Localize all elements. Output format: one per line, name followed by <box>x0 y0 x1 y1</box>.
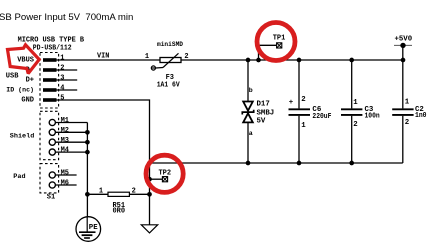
svg-text:Shield: Shield <box>10 132 34 140</box>
svg-text:D+: D+ <box>26 77 34 85</box>
svg-text:M6: M6 <box>61 180 69 188</box>
svg-text:+: + <box>289 99 294 107</box>
svg-text:1: 1 <box>353 99 358 107</box>
svg-text:b: b <box>249 87 253 94</box>
svg-text:Pad: Pad <box>13 173 25 181</box>
svg-text:220uF: 220uF <box>312 113 331 121</box>
svg-text:a: a <box>249 130 253 137</box>
svg-text:MICRO USB TYPE B: MICRO USB TYPE B <box>18 36 85 44</box>
svg-text:1: 1 <box>60 55 64 63</box>
svg-text:1: 1 <box>99 188 103 196</box>
svg-text:GND: GND <box>21 97 34 105</box>
svg-text:SB Power Input 5V 700mA min: SB Power Input 5V 700mA min <box>0 12 133 23</box>
svg-text:USB: USB <box>6 73 19 81</box>
svg-text:M5: M5 <box>61 170 69 178</box>
svg-text:2: 2 <box>132 188 136 196</box>
svg-text:2: 2 <box>60 65 64 73</box>
svg-text:2: 2 <box>301 96 305 104</box>
svg-text:1n0: 1n0 <box>415 112 427 120</box>
svg-text:5: 5 <box>60 95 64 103</box>
svg-text:2: 2 <box>405 119 409 127</box>
svg-text:PD-USB/112: PD-USB/112 <box>33 45 72 53</box>
svg-text:M1: M1 <box>61 117 69 125</box>
svg-text:1: 1 <box>145 53 149 61</box>
svg-text:1A1 6V: 1A1 6V <box>157 82 181 90</box>
svg-text:D17: D17 <box>257 100 270 108</box>
svg-text:VIN: VIN <box>97 52 109 60</box>
svg-text:M2: M2 <box>61 127 69 135</box>
svg-text:1: 1 <box>405 98 410 106</box>
svg-text:miniSMD: miniSMD <box>157 41 183 49</box>
svg-text:M3: M3 <box>61 137 69 145</box>
svg-text:PE: PE <box>89 224 98 232</box>
svg-text:S1: S1 <box>47 194 55 202</box>
svg-text:TP1: TP1 <box>273 34 286 42</box>
svg-text:0R0: 0R0 <box>112 208 125 216</box>
svg-text:ID (nc): ID (nc) <box>6 87 34 94</box>
svg-text:+5V0: +5V0 <box>395 35 413 43</box>
svg-text:1: 1 <box>301 122 306 130</box>
svg-text:5V: 5V <box>257 118 266 126</box>
svg-text:3: 3 <box>60 75 64 83</box>
svg-text:M4: M4 <box>61 147 69 155</box>
svg-text:TP2: TP2 <box>158 169 171 177</box>
svg-text:SMBJ: SMBJ <box>257 110 275 118</box>
svg-text:4: 4 <box>60 85 64 93</box>
svg-text:VBUS: VBUS <box>17 57 34 65</box>
svg-text:2: 2 <box>353 121 357 129</box>
svg-text:100n: 100n <box>365 113 380 121</box>
